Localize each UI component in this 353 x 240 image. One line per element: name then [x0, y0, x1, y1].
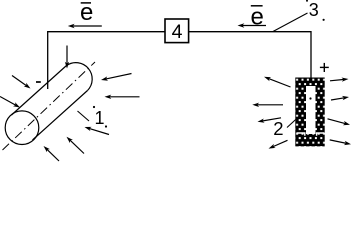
cylinder left end cap: [5, 111, 39, 145]
box 4 (device): [165, 19, 189, 43]
electron symbol e-bar (right): [251, 4, 264, 31]
pointer tick to label 1: [78, 111, 90, 121]
radiation arrow left of electrode 1: [0, 97, 20, 108]
svg-text:4: 4: [172, 21, 183, 43]
svg-text:e: e: [80, 0, 93, 26]
svg-text:e: e: [251, 4, 264, 31]
svg-text:1: 1: [94, 108, 104, 128]
dot above label 1: [93, 106, 95, 108]
electron symbol e-bar (left): [80, 0, 93, 26]
radiation arrow lower-right of electrode 1: [85, 127, 110, 135]
electron flow arrow (right): [238, 23, 267, 27]
minus sign at electrode 1: [36, 81, 41, 83]
white bracket mark right of slot bottom: [317, 133, 325, 136]
electrode 2 stippled body: [295, 78, 324, 147]
cylinder upper side: [12, 66, 67, 116]
cylinder electrode 1: [3, 62, 96, 150]
electron flow arrow (left): [68, 24, 102, 28]
cylinder dash-dot axis: [3, 62, 96, 150]
emission arrow lower-left of electrode 2: [258, 118, 282, 123]
emission arrow right of electrode 2: [331, 96, 349, 100]
emission arrow upper-right of electrode 2: [330, 78, 349, 82]
wire from electrode 1 up and across to box 4: [48, 32, 165, 89]
cylinder right end cap: [67, 63, 93, 91]
radiation arrow bottom of electrode 1: [44, 146, 60, 161]
radiation arrow right of electrode 1: [105, 95, 140, 99]
dot at end of pointer in slot: [309, 97, 311, 99]
emission arrow left of electrode 2: [252, 103, 283, 107]
radiation arrow down at electrode 1: [65, 46, 69, 69]
svg-text:2: 2: [273, 118, 283, 139]
plus sign at electrode 2: [320, 63, 329, 72]
dot below label 1: [105, 125, 107, 127]
dot after 3: [323, 19, 325, 21]
radiation arrow bottom-right of electrode 1: [67, 137, 85, 154]
pointer line from label 2 into slot: [287, 117, 299, 128]
wire from box 4 to corner and down to electrode 2: [189, 32, 311, 78]
emission arrow lower-right of electrode 2: [328, 119, 351, 125]
white bracket mark left of slot bottom: [297, 133, 305, 136]
emission arrow bottom-left of electrode 2: [269, 140, 288, 148]
emission arrow bottom-far-right of electrode 2: [330, 140, 351, 145]
radiation arrow upper-right of electrode 1: [101, 74, 132, 81]
pointer line to label 3: [273, 13, 308, 32]
svg-text:3: 3: [309, 0, 319, 20]
cylinder lower side: [33, 91, 88, 141]
small dot above 3: [306, 0, 308, 2]
radiation arrow upper-left of electrode 1: [12, 76, 31, 89]
emission arrow up-left of electrode 2: [264, 77, 291, 87]
